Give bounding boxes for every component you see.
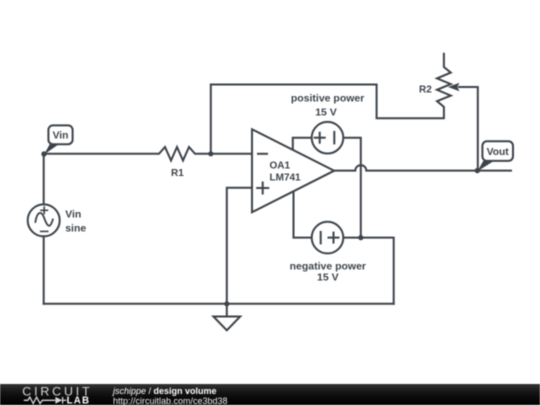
- svg-text:positive power: positive power: [291, 93, 365, 105]
- svg-text:Vout: Vout: [487, 147, 510, 158]
- svg-text:R1: R1: [171, 168, 184, 179]
- svg-text:sine: sine: [65, 222, 86, 234]
- svg-text:Vin: Vin: [53, 130, 69, 141]
- svg-text:LM741: LM741: [270, 173, 302, 184]
- svg-text:OA1: OA1: [270, 160, 291, 171]
- svg-text:R2: R2: [419, 84, 432, 95]
- svg-text:Vin: Vin: [65, 209, 81, 221]
- svg-text:15 V: 15 V: [315, 107, 337, 119]
- svg-text:LAB: LAB: [67, 396, 91, 405]
- svg-text:15 V: 15 V: [317, 272, 339, 284]
